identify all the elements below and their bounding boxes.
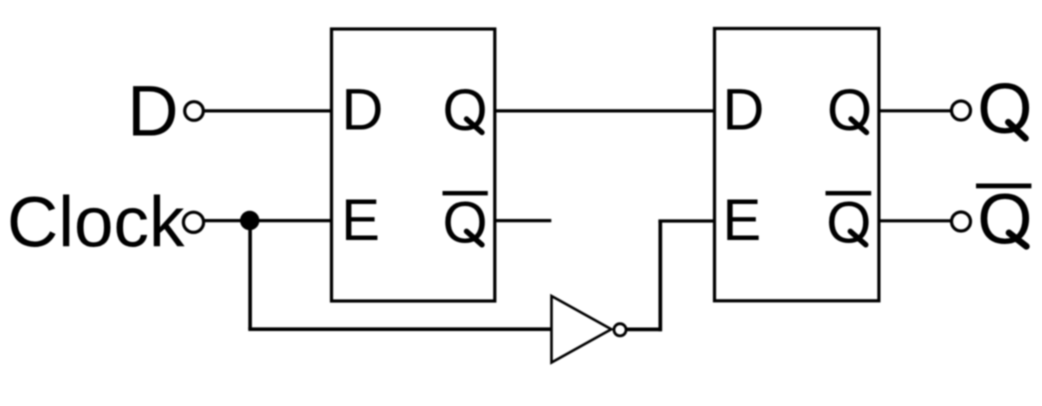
- svg-text:D: D: [342, 78, 384, 143]
- svg-text:D: D: [723, 78, 765, 143]
- svg-text:E: E: [341, 188, 380, 253]
- svg-text:D: D: [127, 73, 178, 152]
- svg-text:E: E: [723, 188, 762, 253]
- svg-text:Clock: Clock: [7, 184, 185, 263]
